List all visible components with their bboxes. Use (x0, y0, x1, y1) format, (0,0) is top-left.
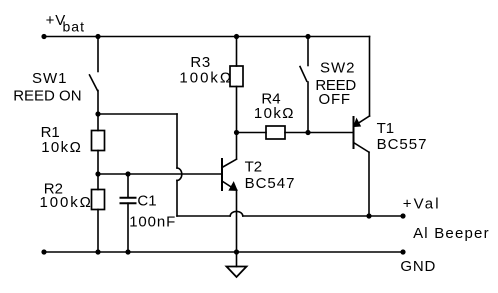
svg-text:BC547: BC547 (245, 175, 296, 192)
transistor T1 base bar (353, 117, 355, 148)
wire node B to T2 collector (236, 133, 238, 159)
svg-text:+Val: +Val (403, 196, 441, 213)
switch SW2 blade (300, 67, 307, 82)
wire hop over T2 emitter (230, 211, 243, 216)
capacitor C1 bottom lead (127, 203, 129, 252)
wire SW1 top lead (97, 37, 99, 72)
wire SW2 bottom lead (307, 82, 309, 133)
wire T1 collector lead (368, 152, 370, 216)
transistor T2 emitter arrow (230, 183, 237, 190)
transistor T2 emitter diagonal (222, 181, 234, 189)
svg-text:100kΩ: 100kΩ (179, 69, 233, 86)
wire base line (98, 173, 221, 175)
wire R1 bottom lead (97, 151, 99, 175)
svg-text:Al Beeper: Al Beeper (413, 225, 490, 242)
transistor T2 base bar (221, 159, 223, 190)
wire R2 bottom lead (97, 210, 99, 253)
resistor R1 body (92, 131, 105, 151)
resistor R3 body (230, 66, 243, 87)
node +Val terminal (400, 213, 405, 218)
capacitor C1 top plate (121, 197, 136, 199)
svg-text:100nF: 100nF (129, 213, 176, 230)
wire SW2 top lead (307, 37, 309, 66)
svg-text:T2: T2 (245, 158, 263, 175)
wire hop column lower (176, 180, 178, 216)
transistor T2 collector diagonal (222, 159, 237, 167)
node SW2 top junction (305, 34, 310, 39)
svg-text:OFF: OFF (319, 91, 351, 108)
svg-text:bat: bat (63, 19, 85, 35)
node C1 bottom junction (125, 249, 130, 254)
ground symbol (227, 267, 247, 278)
node GND right terminal (400, 249, 405, 254)
switch SW1 blade (90, 75, 98, 91)
svg-text:R3: R3 (190, 54, 210, 71)
wire hop over base line (177, 168, 182, 180)
node SW1 top junction (95, 34, 100, 39)
svg-text:T1: T1 (377, 120, 395, 137)
svg-text:REED ON: REED ON (13, 87, 81, 104)
wire node A to R1 (97, 114, 99, 131)
node ground junction (234, 249, 239, 254)
svg-text:10kΩ: 10kΩ (41, 139, 82, 156)
wire +Vbat top rail (44, 36, 370, 38)
resistor R4 body (266, 126, 285, 139)
wire R2 top lead (97, 174, 99, 190)
transistor T1 emitter diagonal (357, 116, 370, 124)
node +Vbat left terminal (41, 34, 46, 39)
svg-text:GND: GND (400, 258, 436, 275)
wire hop column upper (176, 114, 178, 168)
wire T1 emitter lead from rail (369, 37, 371, 117)
wire SW1 to hop column horizontal (98, 113, 177, 115)
wire GND rail (44, 251, 403, 253)
svg-text:+: + (46, 12, 55, 29)
wire R4 left lead (237, 132, 267, 134)
node T1 collector junction (366, 213, 371, 218)
wire SW1 bottom lead (97, 91, 99, 115)
node R3-R4 junction (234, 130, 239, 135)
svg-text:C1: C1 (137, 192, 156, 209)
wire T2 emitter lead (236, 190, 238, 252)
node R3 top junction (234, 34, 239, 39)
node SW1 bottom junction (95, 111, 100, 116)
wire R3 bottom lead (236, 87, 238, 133)
wire +Val line left (177, 215, 230, 217)
node R1-R2 junction (95, 171, 100, 176)
svg-text:SW2: SW2 (320, 59, 356, 76)
svg-text:100kΩ: 100kΩ (40, 194, 93, 211)
transistor T1 collector diagonal (354, 143, 370, 153)
node SW2 bottom junction (305, 130, 310, 135)
svg-text:SW1: SW1 (32, 70, 68, 87)
capacitor C1 top lead (127, 174, 129, 197)
svg-text:BC557: BC557 (377, 136, 428, 153)
capacitor C1 bottom plate (121, 202, 136, 204)
resistor R2 body (92, 190, 105, 210)
node C1 top junction (125, 171, 130, 176)
wire R3 top lead (236, 37, 238, 67)
svg-text:10kΩ: 10kΩ (254, 105, 295, 122)
wire R4 right lead (285, 132, 353, 134)
wire ground stub (236, 252, 238, 267)
node GND left terminal (41, 249, 46, 254)
transistor T1 emitter arrow (354, 120, 360, 127)
node R2 bottom junction (95, 249, 100, 254)
wire +Val line right (243, 215, 403, 217)
